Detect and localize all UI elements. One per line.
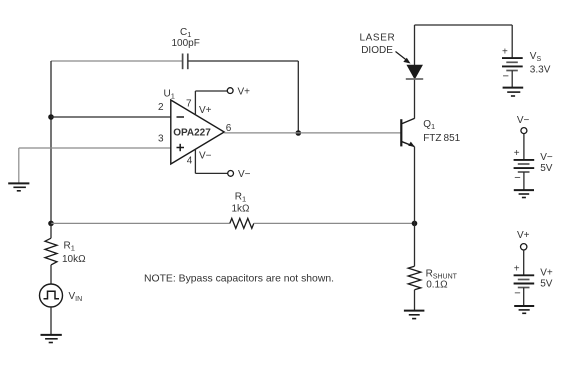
wire V- battery to ground: [523, 172, 525, 190]
svg-text:V+: V+: [540, 268, 553, 279]
wire V+ terminal to battery: [523, 250, 525, 275]
wire op-amp output to base: [224, 132, 401, 134]
svg-text:V−: V−: [199, 150, 212, 161]
resistor Rshunt: [408, 266, 457, 290]
svg-text:V+: V+: [238, 86, 251, 97]
wire feedback right vertical: [297, 61, 299, 133]
svg-text:3.3V: 3.3V: [530, 64, 551, 75]
svg-text:FTZ 851: FTZ 851: [423, 133, 460, 144]
ground left: [8, 183, 29, 190]
svg-text:NOTE: Bypass capacitors are no: NOTE: Bypass capacitors are not shown.: [144, 274, 334, 285]
node feedback-output junction: [296, 130, 302, 136]
wire pin 3: [19, 147, 171, 149]
svg-text:+: +: [514, 264, 520, 275]
node emitter junction: [412, 221, 418, 227]
terminal V- (pin4): [228, 171, 234, 177]
wire V- terminal to battery: [523, 134, 525, 160]
svg-text:2: 2: [158, 102, 164, 113]
wire VS top: [511, 25, 513, 58]
ground VS: [503, 88, 524, 96]
svg-text:7: 7: [186, 99, 192, 110]
svg-text:0.1Ω: 0.1Ω: [426, 280, 448, 291]
capacitor C1: [172, 27, 200, 69]
wire pin 7 supply: [195, 91, 227, 115]
wire bottom feedback right: [254, 222, 415, 224]
wire V+ battery to ground: [523, 288, 525, 307]
wire top to VS: [415, 24, 513, 26]
wire diode to top: [414, 25, 416, 65]
wire pin 2: [51, 116, 171, 118]
svg-text:LASER: LASER: [360, 33, 396, 44]
wire Rshunt to ground: [414, 290, 416, 311]
wire node to R1: [50, 223, 52, 238]
ground VIN: [41, 335, 62, 343]
ground V-: [514, 190, 534, 197]
laser diode D1: [406, 65, 423, 79]
wire pin3 ground drop: [18, 148, 20, 183]
op-amp U1 OPA227: [158, 89, 232, 167]
wire feedback top left: [51, 60, 182, 62]
resistor R1 10k: [45, 238, 86, 265]
wire emitter to node: [414, 147, 416, 224]
wire feedback top right: [188, 60, 298, 62]
svg-text:100pF: 100pF: [172, 38, 200, 49]
svg-text:−: −: [514, 172, 520, 184]
svg-text:4: 4: [187, 156, 193, 167]
source VIN: [40, 284, 83, 307]
battery V+ 5V: [514, 264, 553, 300]
svg-text:5V: 5V: [540, 279, 553, 290]
svg-text:−: −: [503, 71, 509, 83]
svg-text:DIODE: DIODE: [361, 45, 393, 56]
terminal V- supply: [521, 128, 527, 134]
svg-text:−: −: [514, 287, 520, 299]
svg-text:V−: V−: [517, 115, 530, 126]
ground Rshunt: [404, 311, 425, 319]
wire node to Rshunt: [414, 223, 416, 266]
ground V+: [514, 306, 534, 313]
battery V- 5V: [514, 148, 553, 184]
wire pin 4 supply: [195, 149, 227, 173]
arrow laser pointer: [396, 52, 411, 64]
wire VS to ground: [511, 71, 513, 88]
wire collector up to diode: [414, 79, 416, 119]
svg-text:V+: V+: [199, 105, 212, 116]
svg-text:5V: 5V: [540, 163, 553, 174]
wire input node vertical: [50, 61, 52, 224]
svg-text:+: +: [514, 148, 520, 159]
node inverting input junction: [48, 114, 54, 120]
wire bottom feedback left: [51, 222, 230, 224]
svg-text:V+: V+: [517, 230, 530, 241]
svg-text:1kΩ: 1kΩ: [232, 203, 251, 214]
terminal V+ supply: [521, 244, 527, 250]
svg-text:3: 3: [158, 134, 164, 145]
resistor R1 1k: [230, 192, 254, 229]
svg-text:V−: V−: [540, 152, 553, 163]
svg-text:V−: V−: [238, 169, 251, 180]
terminal V+ (pin7): [227, 88, 233, 94]
label LASER DIODE: [360, 33, 396, 56]
wire R1 to VIN: [50, 265, 52, 284]
svg-text:OPA227: OPA227: [173, 128, 211, 139]
wire VIN to ground: [50, 307, 52, 335]
svg-text:10kΩ: 10kΩ: [62, 254, 86, 265]
transistor Q1: [401, 118, 460, 146]
node output bottom junction: [48, 221, 54, 227]
battery VS: [502, 47, 551, 83]
svg-text:+: +: [502, 47, 508, 58]
